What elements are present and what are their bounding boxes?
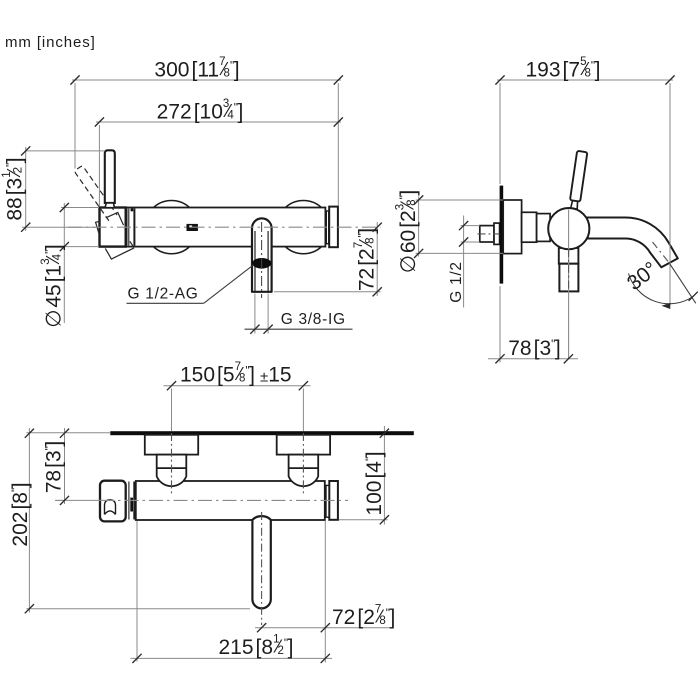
shower outlet tube lower (559, 264, 578, 292)
dim G 1/2 lines (461, 216, 480, 308)
spout centerline (261, 222, 263, 298)
svg-text:202[8"]: 202[8"] (9, 482, 32, 546)
fitting centerline right (302, 389, 304, 432)
spout side (584, 218, 678, 268)
collar (537, 214, 551, 242)
spout centerline dashes (653, 242, 669, 262)
stem (522, 212, 537, 242)
tilted valve cube fragments (alternate position, solid thin) (96, 212, 135, 259)
escutcheon circle right (277, 201, 330, 254)
svg-text:G 1/2: G 1/2 (448, 261, 465, 302)
dim 72 line (view3) (255, 627, 394, 629)
shower outlet tube upper (559, 248, 579, 264)
30 deg reference line (670, 264, 696, 304)
right end ring (326, 211, 328, 244)
cartridge housing (100, 208, 126, 247)
ring lines (126, 209, 128, 246)
spout outlet ellipse (252, 258, 271, 269)
dim 300 line (72, 80, 341, 206)
supply stub G1/2 (480, 226, 494, 242)
G 3/8-IG dimension (255, 294, 268, 334)
dim 78 line (view3) (26, 428, 110, 504)
body centerline (68, 226, 381, 228)
svg-text:G 1/2-AG: G 1/2-AG (128, 286, 199, 303)
spout inner pipe lines (254, 231, 256, 291)
handle neck (105, 203, 114, 208)
right cap bottom view (329, 481, 338, 520)
vertical centerline (568, 210, 570, 359)
marker label on body (187, 224, 198, 231)
arc end tick (689, 292, 698, 301)
dim 150 line (164, 385, 311, 387)
G 1/2-AG leader (127, 265, 254, 304)
fitting centerline left (171, 389, 173, 432)
handle lever upright (105, 150, 115, 203)
dim 215 line (131, 657, 333, 659)
handle lever dashed (alternate tilted position) (74, 165, 117, 220)
dim 100 ticks and extension (339, 519, 388, 521)
30 deg arc (629, 274, 694, 304)
union fitting left : lower body and dome (157, 455, 187, 487)
union fitting left : wide box (145, 435, 198, 455)
dim dia45 line (61, 203, 99, 323)
escutcheon circle left (145, 201, 198, 254)
valve body circle (548, 208, 589, 249)
marker dot on ring (131, 208, 134, 211)
body centerline bottom view (56, 499, 101, 501)
dim 78 line (view2) (488, 286, 578, 363)
right end cap (329, 207, 338, 248)
spout centerline bottom view (261, 512, 263, 625)
stub centerline (478, 233, 522, 235)
dim 88 line (22, 147, 105, 231)
arc arrowhead (662, 303, 671, 309)
spout tube bottom view (252, 516, 270, 608)
handle end cap with logo (100, 481, 126, 522)
body tube bottom view (136, 481, 325, 520)
ring lines bottom view (128, 482, 130, 520)
marker dash on ring (130, 498, 133, 512)
svg-text:G 3/8-IG: G 3/8-IG (281, 311, 346, 328)
dim 272 line (96, 122, 341, 207)
wall line (110, 431, 414, 435)
dim 72 line (view1 right) (274, 222, 381, 296)
dim 202 line (26, 428, 250, 613)
body tube (100, 208, 326, 247)
wall flange bar (500, 186, 504, 284)
union fitting right : lower body and dome (289, 455, 319, 487)
right ring bottom view (326, 485, 329, 517)
dim 193 line (497, 80, 673, 309)
svg-text:mm [inches]: mm [inches] (5, 34, 96, 51)
extension lines for 72 and 215 (137, 521, 325, 663)
tub spout (252, 218, 272, 291)
dim 100 line lower part (behind wall bar) (383, 426, 385, 525)
escutcheon disc side (503, 200, 521, 254)
handle side (569, 151, 588, 209)
dim dia60 line (416, 197, 504, 257)
union fitting right : wide box (277, 435, 330, 455)
logo mark (105, 500, 116, 515)
svg-text:100[4"]: 100[4"] (363, 451, 386, 515)
